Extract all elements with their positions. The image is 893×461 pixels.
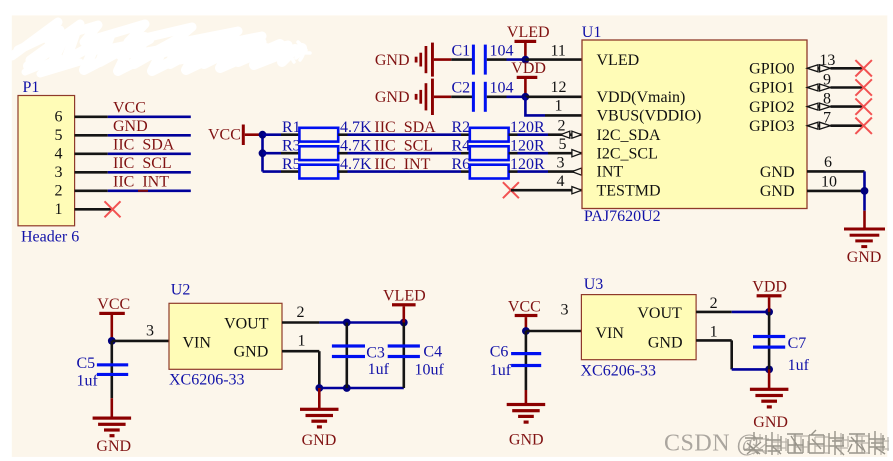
resistor R1 left pin [281, 133, 299, 136]
no-connect X on GPIO2 [855, 98, 872, 114]
capacitor C3 vertical pins [345, 323, 348, 389]
U3 pin 2 stub [696, 311, 732, 314]
wire VDD node down to VBUS row [525, 97, 545, 116]
power port VLED (U2) bar [392, 303, 416, 306]
capacitor C6 top pin [525, 331, 528, 390]
svg-text:GND: GND [375, 52, 410, 69]
U1 pin 5 stub [548, 152, 582, 155]
svg-text:GPIO3: GPIO3 [749, 118, 794, 135]
U1 pin 10 stub (GND) [807, 190, 865, 193]
svg-text:VIN: VIN [596, 325, 625, 342]
svg-text:GND: GND [847, 249, 882, 266]
svg-text:2: 2 [297, 304, 305, 321]
power port GND (C5) bars [93, 417, 132, 438]
pin 4 stub [75, 153, 108, 156]
power port GND (C7) bars [750, 388, 789, 409]
wire R4 to U1 pin 5 [518, 152, 549, 155]
svg-text:1: 1 [298, 333, 306, 350]
svg-text:R4: R4 [452, 138, 471, 155]
U1 pin 2 stub [548, 133, 582, 136]
pin 5 input arrow [572, 150, 582, 157]
pin 3 output arrow [572, 168, 582, 175]
power port GND (U2 out) bars [300, 408, 339, 429]
white page margin right [887, 0, 893, 461]
wire R5 to R6 [348, 170, 462, 173]
svg-text:1uf: 1uf [490, 362, 512, 379]
power port GND (C1) symbol bars [415, 43, 434, 77]
wire R3 to R4 [348, 152, 462, 155]
svg-text:GND: GND [234, 344, 269, 361]
svg-text:R2: R2 [452, 119, 471, 136]
junction GND pins [861, 187, 869, 195]
svg-text:VIN: VIN [183, 334, 212, 351]
wire GND pin down (U3) [730, 340, 733, 369]
capacitor C4 vertical pins [402, 323, 405, 389]
no-connect X on GPIO3 [855, 118, 872, 134]
svg-text:1: 1 [710, 324, 718, 341]
power port VCC (U3) stem [525, 317, 528, 331]
svg-text:2: 2 [710, 295, 718, 312]
svg-text:IIC INT: IIC INT [113, 174, 169, 191]
svg-text:1: 1 [55, 201, 63, 218]
power port VDD stem [524, 79, 527, 97]
svg-text:C4: C4 [423, 344, 442, 361]
svg-text:C2: C2 [452, 80, 471, 97]
svg-text:VOUT: VOUT [637, 305, 682, 322]
power port VCC (U2) stem [111, 315, 114, 341]
U1 pin 8 stub (GPIO2) [830, 105, 863, 108]
svg-text:CSDN @: CSDN @ [664, 431, 759, 457]
resistor R2 body [470, 128, 509, 142]
power port VCC bar [242, 125, 245, 146]
white page margin left [0, 0, 12, 461]
svg-text:C1: C1 [452, 43, 471, 60]
no-connect X on pin 1 [105, 201, 121, 217]
IC U2 body [169, 303, 282, 369]
wire rail corner to R5 [263, 170, 282, 173]
power port GND (U1) stem [863, 211, 866, 229]
svg-text:IIC SCL: IIC SCL [113, 155, 172, 172]
wire bottom rail [319, 387, 404, 390]
wire GND pins down [863, 171, 866, 210]
power port GND (C2) symbol bars [415, 79, 434, 115]
junction C7 bottom [765, 366, 773, 374]
capacitor C3 plates [332, 344, 365, 358]
svg-text:R3: R3 [282, 138, 301, 155]
pin 13 bidirectional arrow [807, 65, 830, 72]
junction C3 bottom [343, 384, 351, 392]
wire VCC net [108, 116, 191, 119]
svg-text:INT: INT [597, 164, 624, 181]
svg-text:2: 2 [558, 118, 566, 135]
power port GND (U2 out) stem [318, 388, 321, 409]
wire GND pin down [318, 351, 321, 388]
pin 9 bidirectional arrow [807, 84, 830, 91]
svg-text:C6: C6 [490, 343, 509, 360]
wire rail to R1 [263, 133, 282, 136]
wire GND net [108, 134, 191, 137]
svg-text:C3: C3 [366, 345, 385, 362]
wire C2 to VDD node [507, 96, 526, 99]
power port VCC (U3) bar [515, 314, 538, 317]
pin 3 stub [75, 171, 108, 174]
pin 2 stub [75, 190, 108, 193]
watermark CSDN [664, 430, 889, 457]
power port GND (C7) stem [768, 369, 771, 389]
U3 pin 3 stub [526, 330, 582, 333]
svg-text:3: 3 [557, 155, 565, 172]
svg-text:6: 6 [55, 109, 63, 126]
pin 6 stub [75, 116, 108, 119]
white page margin bottom [0, 457, 893, 461]
resistor R3 right pin [338, 152, 347, 155]
svg-text:10: 10 [821, 174, 837, 191]
junction VCC/C5 node [108, 337, 116, 345]
wire VOUT to VDD node [732, 311, 769, 314]
svg-text:VCC: VCC [113, 100, 146, 117]
wire R2 to U1 pin 2 [518, 133, 549, 136]
svg-text:U2: U2 [171, 282, 191, 299]
wire VCC rail vertical [261, 135, 264, 172]
svg-text:R6: R6 [452, 156, 471, 173]
svg-text:1uf: 1uf [368, 361, 390, 378]
U1 pin 11 stub [525, 58, 582, 61]
capacitor C2 plates [472, 82, 487, 112]
svg-text:GND: GND [113, 118, 148, 135]
junction VLED node [522, 56, 530, 64]
pin 4 input arrow [572, 187, 582, 194]
svg-text:VLED: VLED [507, 24, 550, 41]
wire R1 to R2 [348, 133, 462, 136]
no-connect X on GPIO1 [855, 79, 872, 95]
U1 pin 6 stub (GND) [807, 170, 865, 173]
svg-text:C7: C7 [788, 335, 807, 352]
svg-text:1uf: 1uf [77, 373, 99, 390]
resistor R5 left pin [281, 170, 299, 173]
wire IIC_SCL net [108, 171, 191, 174]
junction VDD node [522, 93, 530, 101]
junction C3 top [343, 319, 351, 327]
U1 pin 7 stub (GPIO3) [830, 124, 863, 127]
svg-text:XC6206-33: XC6206-33 [169, 372, 245, 389]
svg-text:VBUS(VDDIO): VBUS(VDDIO) [597, 108, 702, 125]
junction on rail at SDA row [259, 131, 267, 139]
IC U3 body [581, 295, 696, 360]
svg-text:VOUT: VOUT [224, 315, 269, 332]
power port GND (U1) bars [844, 228, 885, 249]
U1 pin 9 stub (GPIO1) [830, 86, 863, 89]
svg-text:VCC: VCC [208, 127, 241, 144]
wire rail to R3 [263, 152, 282, 155]
no-connect X on TESTMD [503, 182, 519, 198]
capacitor C1 plates [472, 45, 487, 75]
svg-text:VCC: VCC [97, 296, 130, 313]
power port VDD bar [517, 76, 538, 79]
resistor R6 body [470, 165, 509, 179]
svg-text:GND: GND [302, 432, 337, 449]
svg-text:Header 6: Header 6 [21, 229, 79, 246]
resistor R5 body [299, 165, 338, 179]
wire IIC_INT net [108, 190, 191, 193]
resistor R1 body [299, 128, 338, 142]
svg-text:XC6206-33: XC6206-33 [581, 363, 657, 380]
pin 2 bidirectional arrow [561, 131, 582, 138]
power port VCC (U2) bar [99, 312, 125, 315]
capacitor C1 left pin [451, 58, 472, 61]
wire VOUT to VLED rail [319, 321, 403, 324]
svg-text:4: 4 [557, 173, 565, 190]
pin 8 bidirectional arrow [807, 103, 830, 110]
junction on rail at SCL row [259, 149, 267, 157]
resistor R6 left pin [461, 170, 470, 173]
resistor R6 right pin [509, 170, 518, 173]
svg-text:PAJ7620U2: PAJ7620U2 [584, 208, 661, 225]
U2 pin 2 stub [282, 321, 319, 324]
connector P1 body [18, 96, 75, 226]
white eraser scribble top-left [12, 22, 310, 74]
U1 pin 1 stub [545, 114, 582, 117]
svg-text:GND: GND [96, 438, 131, 455]
power port GND (C5) stem [111, 398, 114, 418]
svg-text:VLED: VLED [383, 288, 426, 305]
svg-text:GND: GND [509, 432, 544, 449]
U2 pin 3 stub [112, 340, 169, 343]
svg-text:GPIO0: GPIO0 [749, 61, 794, 78]
svg-text:GND: GND [375, 89, 410, 106]
svg-text:I2C_SDA: I2C_SDA [597, 127, 661, 144]
resistor R3 body [299, 146, 338, 160]
resistor R4 right pin [509, 152, 518, 155]
IC U1 body [582, 40, 807, 209]
svg-text:GPIO1: GPIO1 [749, 80, 794, 97]
resistor R5 right pin [338, 170, 347, 173]
svg-text:3: 3 [561, 302, 569, 319]
power port VDD (U3) bar [757, 294, 782, 297]
no-connect X on GPIO0 [855, 60, 872, 76]
resistor R1 right pin [338, 133, 347, 136]
svg-text:U1: U1 [582, 24, 602, 41]
white page margin top [0, 0, 893, 15]
wire bottom to C7 [732, 368, 769, 371]
wire GND to C2 (red) [434, 96, 451, 99]
power port VLED bar [515, 40, 537, 43]
capacitor C7 vertical pins [768, 312, 771, 370]
wire R6 to U1 pin 3 [518, 170, 549, 173]
svg-text:U3: U3 [584, 276, 604, 293]
svg-text:10uf: 10uf [415, 362, 445, 379]
svg-text:GND: GND [760, 164, 795, 181]
svg-text:VDD: VDD [511, 60, 546, 77]
svg-text:P1: P1 [23, 79, 40, 96]
power port GND (C6) bars [507, 403, 546, 424]
junction VCC/C6 node [522, 327, 530, 335]
net label IIC_INT underscore [138, 190, 148, 192]
capacitor C2 left pin [451, 96, 472, 99]
resistor R2 right pin [509, 133, 518, 136]
svg-text:GND: GND [760, 183, 795, 200]
pin 1 stub [75, 208, 113, 211]
U1 pin 3 stub [548, 170, 582, 173]
junction VDD/C7 node [765, 308, 773, 316]
svg-text:6: 6 [824, 154, 832, 171]
svg-text:4: 4 [55, 146, 63, 163]
svg-text:1uf: 1uf [788, 357, 810, 374]
net label IIC_INT underscore (pull-up row) [399, 171, 409, 173]
capacitor C5 plates [97, 363, 128, 376]
resistor R4 body [470, 146, 509, 160]
wire IIC_SDA net [108, 153, 191, 156]
U1 pin 4 stub [511, 189, 582, 192]
resistor R2 left pin [461, 133, 470, 136]
svg-text:104: 104 [490, 43, 514, 60]
capacitor C4 plates [388, 344, 420, 358]
wire C1 to VLED node [507, 58, 526, 61]
wire GND to C1 (red) [434, 58, 451, 61]
pin 5 stub [75, 134, 108, 137]
svg-text:3: 3 [55, 164, 63, 181]
svg-text:TESTMD: TESTMD [597, 182, 661, 199]
capacitor C7 plates [753, 335, 785, 349]
svg-text:1: 1 [555, 98, 563, 115]
junction C4 top / VLED node [400, 319, 408, 327]
svg-text:I2C_SCL: I2C_SCL [597, 145, 658, 162]
U1 pin 13 stub (GPIO0) [830, 67, 863, 70]
svg-text:R1: R1 [282, 119, 301, 136]
svg-text:GND: GND [753, 414, 788, 431]
svg-text:11: 11 [551, 42, 566, 59]
power port VLED stem [524, 43, 527, 60]
capacitor C2 right pin [487, 96, 507, 99]
power port VLED (U2) stem [402, 306, 405, 322]
U1 pin 12 stub [525, 96, 582, 99]
capacitor C1 right pin [487, 58, 507, 61]
svg-text:R5: R5 [282, 156, 301, 173]
resistor R4 left pin [461, 152, 470, 155]
U3 pin 1 stub [696, 339, 732, 342]
wire VCC to rail [245, 133, 263, 136]
capacitor C5 top pin [111, 341, 114, 398]
svg-text:3: 3 [146, 323, 154, 340]
svg-text:VDD(Vmain): VDD(Vmain) [597, 89, 686, 106]
svg-text:5: 5 [559, 136, 567, 153]
U2 pin 1 stub [282, 350, 319, 353]
svg-text:IIC SDA: IIC SDA [113, 137, 175, 154]
svg-text:VCC: VCC [508, 298, 541, 315]
svg-text:104: 104 [490, 80, 514, 97]
power port GND (C6) stem [525, 390, 528, 405]
svg-text:VDD: VDD [752, 278, 787, 295]
svg-text:VLED: VLED [597, 52, 640, 69]
capacitor C6 plates [511, 352, 541, 367]
power port VDD (U3) stem [768, 297, 771, 312]
resistor R3 left pin [281, 152, 299, 155]
svg-text:12: 12 [551, 79, 567, 96]
svg-text:2: 2 [55, 183, 63, 200]
pin 7 bidirectional arrow [807, 122, 830, 129]
svg-text:GND: GND [648, 334, 683, 351]
svg-text:GPIO2: GPIO2 [749, 99, 794, 116]
svg-text:C5: C5 [77, 355, 96, 372]
svg-text:5: 5 [55, 127, 63, 144]
junction GND rail left [315, 384, 323, 392]
